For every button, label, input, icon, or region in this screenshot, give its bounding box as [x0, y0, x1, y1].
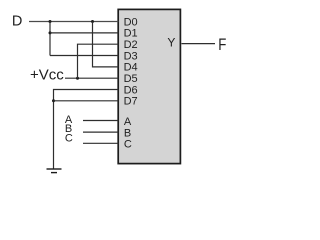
svg-text:D7: D7: [124, 96, 138, 108]
wire vertical branch x=92.5 to pin D4: [93, 22, 119, 67]
wire A to pin A: [83, 120, 119, 122]
svg-text:C: C: [65, 132, 73, 144]
wire C to pin C: [83, 142, 119, 144]
svg-text:F: F: [218, 36, 226, 55]
svg-text:D0: D0: [124, 16, 138, 28]
svg-text:D: D: [12, 13, 22, 29]
wire vertical branch x=50: [49, 22, 51, 56]
svg-text:D1: D1: [124, 28, 138, 40]
junction dot ground branch: [52, 99, 55, 102]
svg-text:A: A: [124, 116, 132, 128]
wire to pin D3: [50, 55, 119, 57]
wire ground branch to pin D6: [54, 90, 119, 170]
svg-text:+Vcc: +Vcc: [30, 67, 64, 84]
wire to pin D7: [54, 100, 119, 102]
wire B to pin B: [83, 131, 119, 133]
wire D to pin D0: [29, 21, 119, 23]
svg-text:D2: D2: [124, 39, 138, 51]
junction dot D line left: [49, 20, 52, 23]
wire Vcc branch to pin D2: [78, 44, 119, 78]
mux U1 body: [118, 9, 180, 163]
ground: [47, 169, 62, 173]
wire to pin D1: [50, 32, 119, 34]
junction dot D1 branch: [49, 31, 52, 34]
wire Vcc to pin D5: [65, 77, 119, 79]
svg-text:D3: D3: [124, 50, 138, 62]
wire Y to F: [182, 43, 216, 45]
svg-text:D6: D6: [124, 84, 138, 96]
svg-text:C: C: [124, 139, 132, 151]
svg-text:B: B: [124, 127, 131, 139]
junction dot D line right: [91, 20, 94, 23]
svg-text:Y: Y: [167, 35, 175, 49]
svg-text:D4: D4: [124, 62, 138, 74]
svg-text:D5: D5: [124, 73, 138, 85]
junction dot Vcc: [76, 77, 79, 80]
